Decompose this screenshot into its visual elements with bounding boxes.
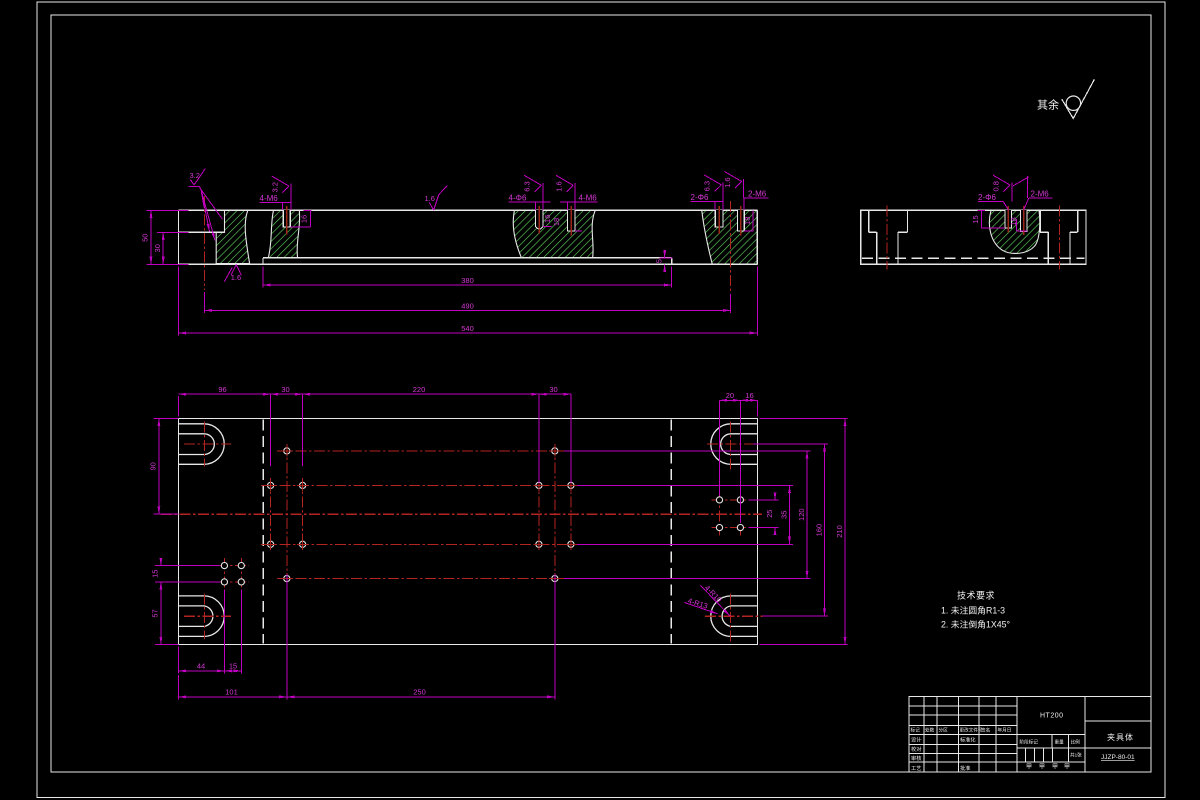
svg-text:0.8: 0.8 <box>991 181 1000 191</box>
svg-text:35: 35 <box>779 511 788 519</box>
svg-text:90: 90 <box>149 462 158 470</box>
svg-text:共1张: 共1张 <box>1070 752 1082 759</box>
svg-text:6.3: 6.3 <box>523 181 532 191</box>
svg-text:1.6: 1.6 <box>425 194 435 203</box>
svg-text:技术要求: 技术要求 <box>957 590 995 601</box>
svg-text:5: 5 <box>655 259 664 263</box>
svg-text:处数: 处数 <box>925 727 935 734</box>
svg-text:甲: 甲 <box>1026 764 1032 771</box>
svg-text:120: 120 <box>797 508 806 521</box>
svg-text:甲: 甲 <box>1052 764 1058 771</box>
svg-text:签名: 签名 <box>981 727 990 734</box>
svg-text:JJZP-80-01: JJZP-80-01 <box>1101 754 1135 761</box>
svg-text:阶段标记: 阶段标记 <box>1020 739 1039 746</box>
svg-text:15: 15 <box>151 570 160 578</box>
svg-text:15: 15 <box>971 215 980 223</box>
svg-text:44: 44 <box>197 662 205 671</box>
svg-text:25: 25 <box>765 510 774 518</box>
svg-text:380: 380 <box>461 276 474 285</box>
svg-text:30: 30 <box>281 385 289 394</box>
svg-text:96: 96 <box>218 385 226 394</box>
svg-text:210: 210 <box>835 525 844 538</box>
svg-text:16: 16 <box>300 215 309 223</box>
svg-text:30: 30 <box>153 244 162 252</box>
svg-text:57: 57 <box>151 609 160 617</box>
svg-text:4-M6: 4-M6 <box>579 193 598 202</box>
svg-text:批准: 批准 <box>960 764 970 772</box>
svg-text:夹具体: 夹具体 <box>1107 732 1134 742</box>
svg-text:1.6: 1.6 <box>555 181 564 191</box>
svg-text:1. 未注圆角R1-3: 1. 未注圆角R1-3 <box>941 604 1005 615</box>
svg-text:6.3: 6.3 <box>703 181 712 191</box>
svg-text:标记: 标记 <box>911 727 921 734</box>
svg-text:16: 16 <box>745 391 753 400</box>
svg-text:1.6: 1.6 <box>231 273 241 282</box>
svg-text:540: 540 <box>461 324 474 333</box>
svg-text:设计: 设计 <box>911 736 921 744</box>
svg-text:2. 未注倒角1X45°: 2. 未注倒角1X45° <box>941 619 1010 630</box>
svg-text:比例: 比例 <box>1071 739 1081 746</box>
svg-text:2-Φ6: 2-Φ6 <box>978 193 996 202</box>
svg-text:18: 18 <box>1009 217 1018 225</box>
svg-text:101: 101 <box>225 688 238 697</box>
svg-text:4-Φ6: 4-Φ6 <box>509 193 527 202</box>
svg-text:20: 20 <box>726 391 734 400</box>
svg-text:4-M6: 4-M6 <box>260 194 279 203</box>
svg-text:490: 490 <box>461 301 474 310</box>
svg-text:18: 18 <box>743 217 752 225</box>
svg-text:2-M6: 2-M6 <box>748 190 767 199</box>
svg-text:更改文件号: 更改文件号 <box>960 727 983 734</box>
svg-text:15: 15 <box>229 662 237 671</box>
svg-text:工艺: 工艺 <box>911 765 921 772</box>
svg-text:3.2: 3.2 <box>190 171 200 180</box>
svg-text:分区: 分区 <box>939 727 949 734</box>
svg-text:1.6: 1.6 <box>723 177 732 187</box>
svg-text:16: 16 <box>543 215 552 223</box>
svg-text:160: 160 <box>814 524 823 537</box>
svg-text:其余: 其余 <box>1037 98 1059 112</box>
svg-text:标准化: 标准化 <box>960 736 976 744</box>
svg-text:审核: 审核 <box>911 754 921 762</box>
svg-text:重量: 重量 <box>1055 739 1065 746</box>
svg-text:甲: 甲 <box>1039 764 1045 771</box>
svg-text:18: 18 <box>552 218 561 226</box>
svg-text:HT200: HT200 <box>1040 713 1064 720</box>
svg-text:50: 50 <box>141 234 150 242</box>
svg-text:3.2: 3.2 <box>270 182 279 192</box>
svg-text:220: 220 <box>413 385 426 394</box>
svg-text:甲: 甲 <box>1064 764 1070 771</box>
svg-text:年月日: 年月日 <box>998 727 1012 734</box>
svg-text:2-M6: 2-M6 <box>1031 190 1050 199</box>
svg-text:2-Φ6: 2-Φ6 <box>691 193 709 202</box>
svg-text:校对: 校对 <box>911 745 921 753</box>
svg-text:250: 250 <box>413 688 426 697</box>
svg-text:30: 30 <box>549 385 557 394</box>
